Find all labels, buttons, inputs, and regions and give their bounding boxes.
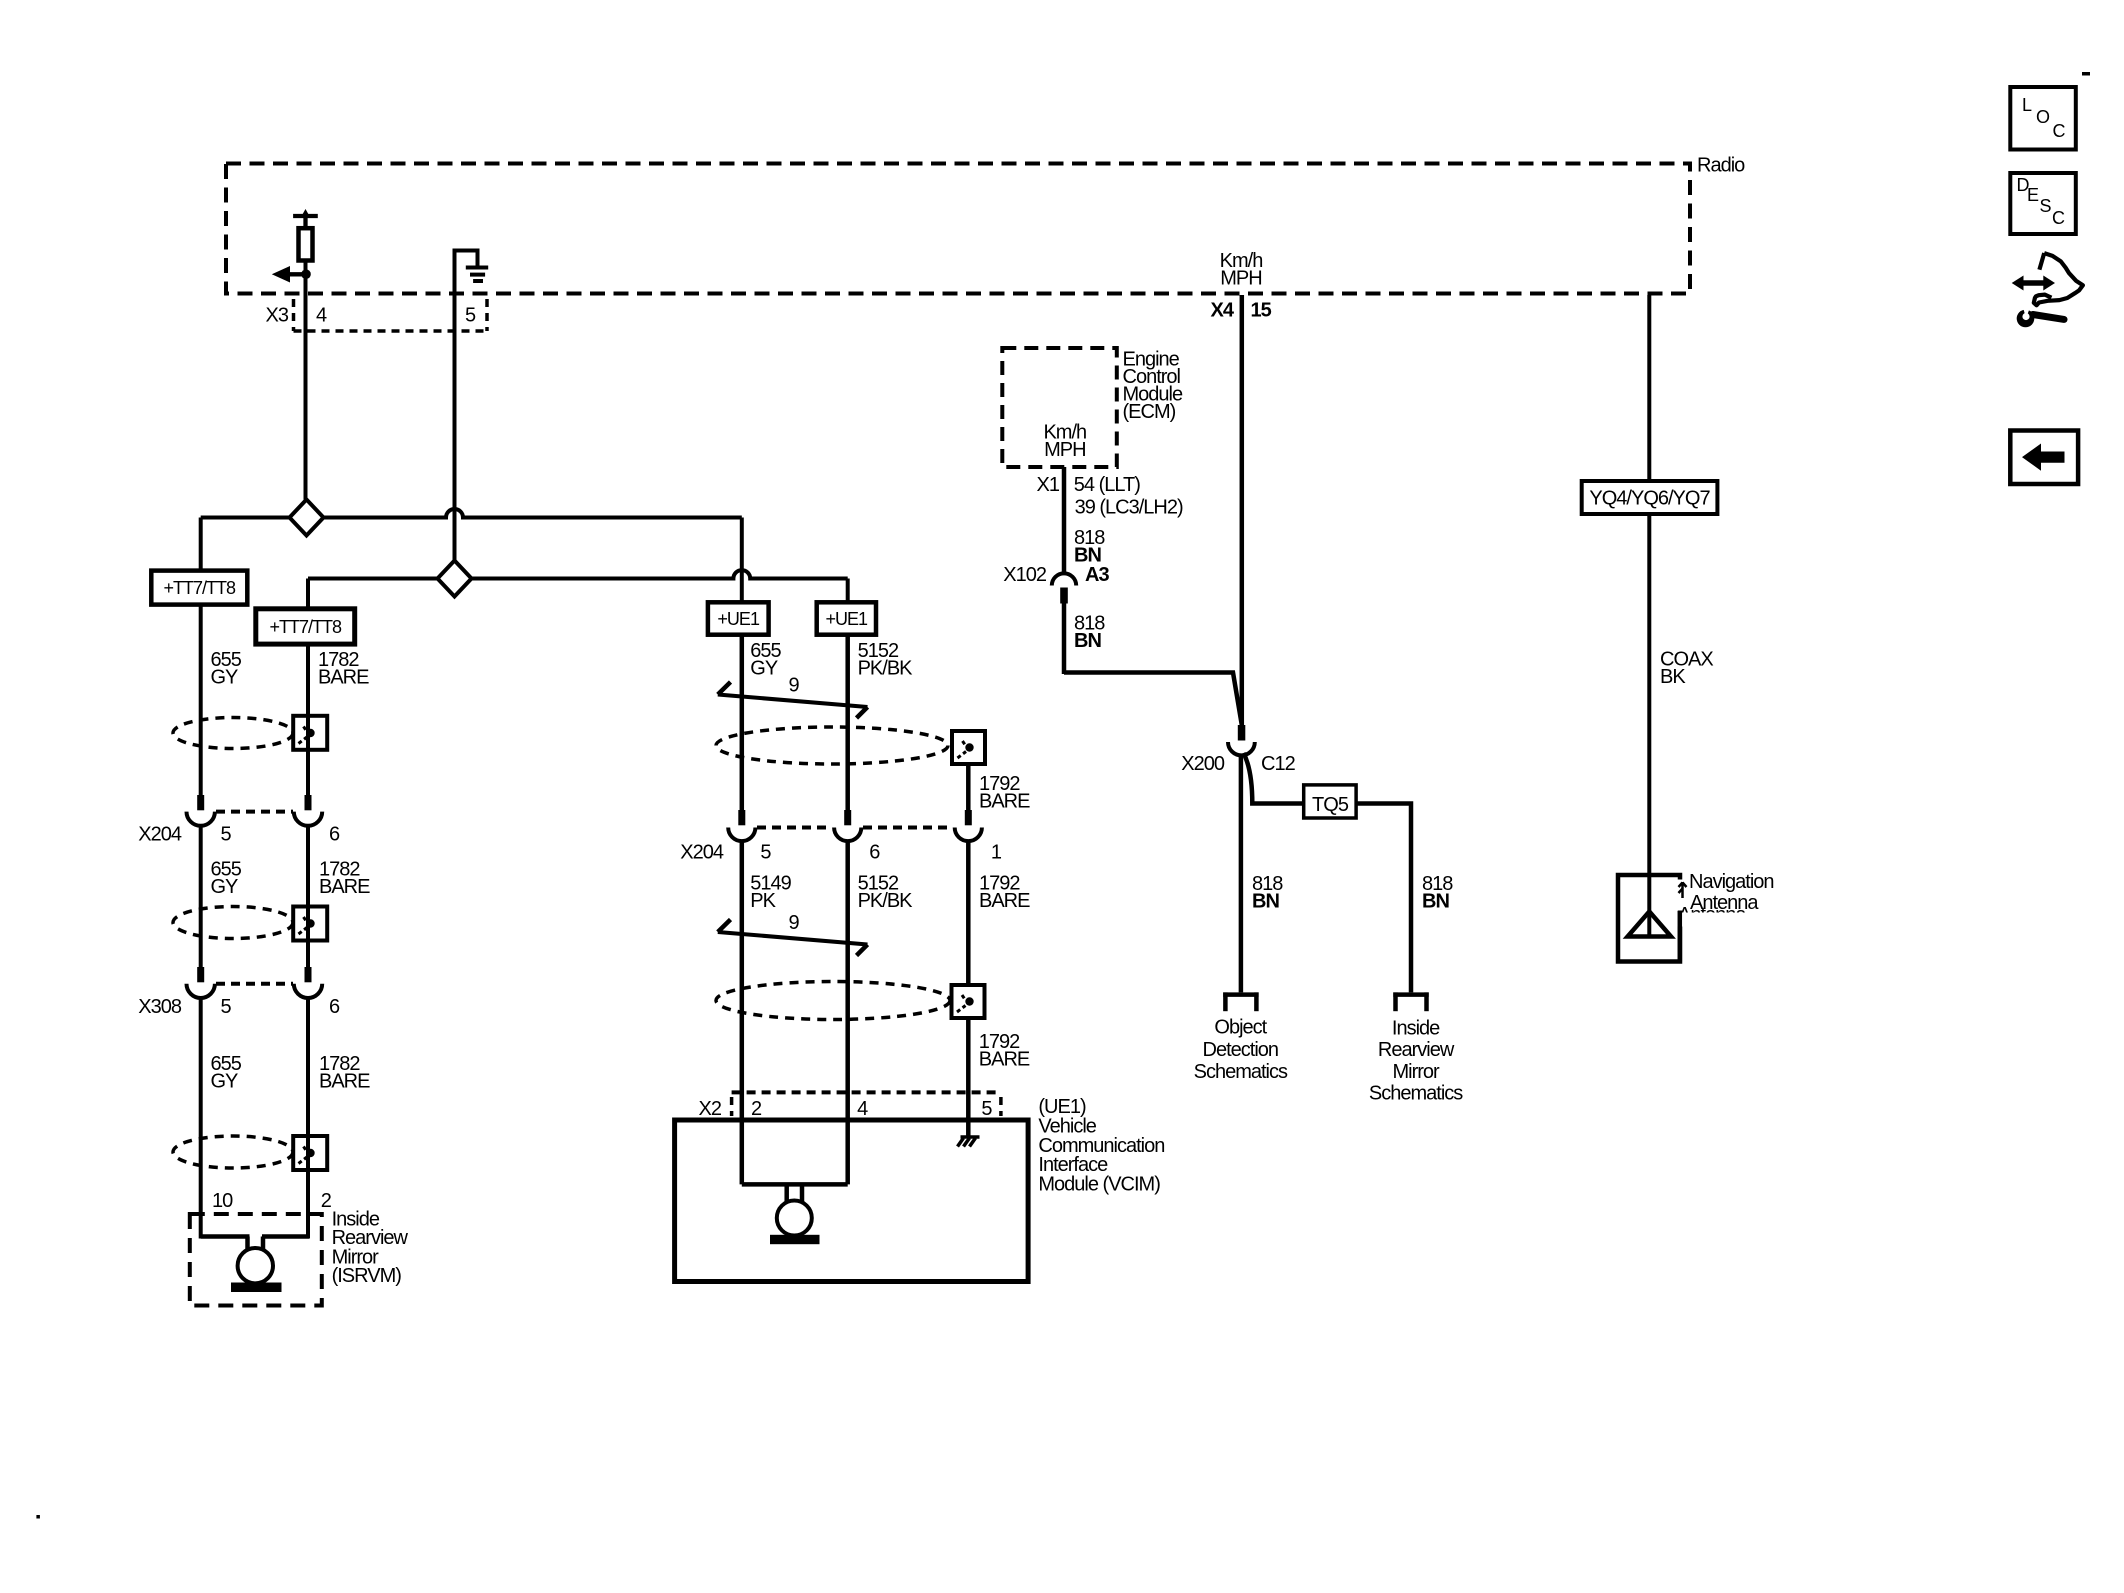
svg-text:BN: BN [1252,891,1279,913]
svg-text:2: 2 [751,1098,762,1120]
off-page terminal left [1223,992,1258,1011]
wire 1782 BARE left run [306,644,310,795]
twisted pair symbol 1 [718,682,868,718]
svg-text:O: O [2036,107,2050,127]
X3 connector dashed outline [266,299,487,331]
svg-text:Navigation: Navigation [1689,871,1774,893]
svg-text:39 (LC3/LH2): 39 (LC3/LH2) [1075,497,1183,519]
shield ellipse 3 [173,1136,293,1168]
svg-text:Rearview: Rearview [1378,1039,1455,1061]
shield drain box 3 [293,1136,327,1170]
svg-text:10: 10 [212,1190,233,1212]
svg-text:X102: X102 [1003,564,1047,586]
svg-text:+UE1: +UE1 [826,609,869,629]
Inside Rearview Mirror Schematics [1369,1017,1463,1104]
wire left 655 GY [199,518,203,571]
svg-text:5: 5 [760,842,771,864]
twisted pair symbol 2 [718,920,868,956]
wire 655 GY mid run [740,635,745,810]
schematic navigation icon [2012,253,2083,327]
+UE1 box 1 [708,602,769,634]
horizontal bus 1 with hop over pin5 wire [201,509,742,518]
off-page terminal right [1393,992,1428,1011]
svg-text:BARE: BARE [979,890,1030,912]
wire into antenna + triangle [1628,875,1671,937]
svg-text:E: E [2027,185,2039,205]
svg-text:BARE: BARE [319,876,370,898]
wire mid 5152 down from bus2 [846,579,850,603]
X2 connector dashed [699,1092,1001,1120]
navigation antenna box [1618,875,1685,962]
svg-text:C: C [2052,208,2065,228]
wire radio pin5 down [453,249,457,561]
wire 655 GY left run [199,605,203,796]
VCIM base bar [770,1235,820,1244]
svg-text:X2: X2 [699,1098,722,1120]
wire mid 655 GY down from bus1 [740,518,744,603]
svg-text:MPH: MPH [1044,439,1085,461]
svg-text:C: C [2053,121,2066,141]
svg-text:5: 5 [221,996,232,1018]
svg-text:4: 4 [857,1098,868,1120]
svg-text:54 (LLT): 54 (LLT) [1074,474,1140,496]
TQ5 box [1304,785,1356,818]
wire 818 to X200 [1064,673,1242,726]
svg-text:Schematics: Schematics [1369,1083,1463,1105]
svg-text:Object: Object [1214,1017,1267,1039]
svg-text:X204: X204 [680,842,724,864]
Object Detection Schematics [1194,1017,1288,1084]
LOC button [2010,87,2076,150]
svg-text:5: 5 [465,305,476,327]
svg-text:BARE: BARE [979,1049,1030,1071]
VCIM internal: horizontal joining wires 2 and 4 [742,1182,848,1187]
svg-text:(ECM): (ECM) [1123,401,1176,423]
svg-text:PK/BK: PK/BK [858,658,914,680]
svg-text:MPH: MPH [1220,268,1261,290]
X204 left dashed joint [216,810,293,814]
shield ellipse mid 2 [716,982,950,1020]
shield ellipse mid 1 [716,727,948,764]
wire X200 down to Object Detection [1239,755,1244,992]
svg-text:Inside: Inside [1392,1017,1440,1039]
svg-text:6: 6 [329,996,340,1018]
svg-text:X4: X4 [1211,300,1235,322]
right: wire radio to YQ box [1647,295,1651,481]
shield ellipse 1 [173,718,293,749]
junction diamond 1 [290,500,324,536]
svg-text:5: 5 [221,824,232,846]
clipped duplicate Antenna text [1672,904,1767,962]
wire YQ box down to antenna [1647,514,1651,875]
shield drain box 1 [293,716,327,750]
wire TQ5 right down [1356,804,1411,993]
+TT7/TT8 box 1 [151,571,247,605]
junction diamond 2 [438,561,472,597]
svg-text:C12: C12 [1261,753,1296,775]
+UE1 box 2 [817,602,876,634]
svg-text:X308: X308 [138,996,182,1018]
svg-text:S: S [2040,196,2052,216]
ground (radio internal, pin 5) [454,251,488,282]
connector X102 [1003,564,1109,674]
tiny dash [2082,72,2090,76]
shield drain box mid 1 [952,731,985,810]
svg-text:X1: X1 [1037,474,1060,496]
svg-text:Mirror: Mirror [1392,1061,1440,1083]
svg-text:2: 2 [321,1190,332,1212]
svg-text:Radio: Radio [1697,155,1745,177]
svg-text:Detection: Detection [1203,1039,1279,1061]
svg-text:9: 9 [789,912,800,934]
svg-text:PK/BK: PK/BK [858,890,914,912]
wire left 1782 BARE [306,579,310,609]
connector X200 [1181,725,1295,775]
ISRVM internal wiring [201,1237,309,1252]
svg-text:15: 15 [1251,300,1272,322]
ISRVM label [332,1209,409,1287]
svg-text:GY: GY [211,1070,239,1092]
svg-text:BN: BN [1422,891,1449,913]
svg-text:(ISRVM): (ISRVM) [332,1265,402,1287]
ECM label [1123,348,1183,423]
connector X204 left: pin+cup wire 1782 [294,795,322,967]
svg-text:BK: BK [1660,666,1686,688]
horizontal bus 2 with hop [308,570,848,578]
wire X200 to TQ5 [1244,753,1304,804]
+TT7/TT8 box 2 [256,609,355,644]
svg-text:9: 9 [789,675,800,697]
svg-text:L: L [2022,95,2032,115]
connector X204 left: pin+cup wire 655 [187,795,215,967]
svg-text:6: 6 [329,824,340,846]
antenna mast glyph [1679,882,1687,898]
YQ4/YQ6/YQ7 box [1582,481,1718,514]
svg-text:+UE1: +UE1 [717,609,760,629]
svg-text:Antenna: Antenna [1690,892,1759,914]
svg-text:PK: PK [750,890,776,912]
DESC button [2010,173,2076,234]
svg-text:X200: X200 [1181,753,1225,775]
tiny bottom-left dot [36,1515,40,1519]
ISRVM base bar [231,1283,282,1293]
VCIM box [675,1120,1029,1282]
svg-text:BARE: BARE [319,1070,370,1092]
VCIM chassis ground on pin 5 [958,1137,980,1147]
svg-text:Module (VCIM): Module (VCIM) [1038,1174,1160,1196]
radio dashed box [226,155,1745,294]
connector X308: pin+cup wire 655 [187,967,215,1239]
svg-text:BARE: BARE [979,791,1030,813]
svg-text:4: 4 [316,305,327,327]
svg-text:+TT7/TT8: +TT7/TT8 [270,617,343,637]
shield ellipse 2 [173,907,293,939]
svg-text:6: 6 [869,842,880,864]
ISRVM lamp circle [238,1248,273,1283]
resistor (radio internal termination) [293,209,318,280]
svg-text:GY: GY [211,667,239,689]
svg-text:TQ5: TQ5 [1312,794,1349,816]
wire ECM X1 down [1062,467,1067,575]
shield drain box mid 2 [952,985,985,1136]
svg-text:Schematics: Schematics [1194,1061,1288,1083]
svg-text:1: 1 [991,842,1002,864]
back arrow button [2010,431,2078,485]
wire X4 pin 15 down [1240,295,1245,725]
svg-text:YQ4/YQ6/YQ7: YQ4/YQ6/YQ7 [1589,488,1710,510]
svg-text:GY: GY [750,658,778,680]
shield drain box 2 [293,907,327,941]
svg-text:X3: X3 [266,305,289,327]
svg-text:+TT7/TT8: +TT7/TT8 [164,578,237,598]
VCIM label [1038,1096,1164,1196]
svg-text:5: 5 [981,1098,992,1120]
wire radio pin4 down [304,278,308,500]
svg-text:A3: A3 [1085,564,1109,586]
svg-text:BN: BN [1074,630,1101,652]
X308 dashed joint [216,982,293,986]
svg-text:BARE: BARE [318,667,369,689]
ISRVM dashed box [190,1214,322,1306]
svg-text:GY: GY [211,876,239,898]
ECM dashed box [1002,348,1117,467]
connector X308: pin+cup wire 1782 [294,967,322,1239]
connector X204 mid: three pins [728,810,755,1184]
VCIM lamp circle [777,1201,812,1236]
wire 5152 PK/BK run [845,635,850,810]
svg-text:X204: X204 [138,824,182,846]
junction dot + left arrow [272,266,311,283]
